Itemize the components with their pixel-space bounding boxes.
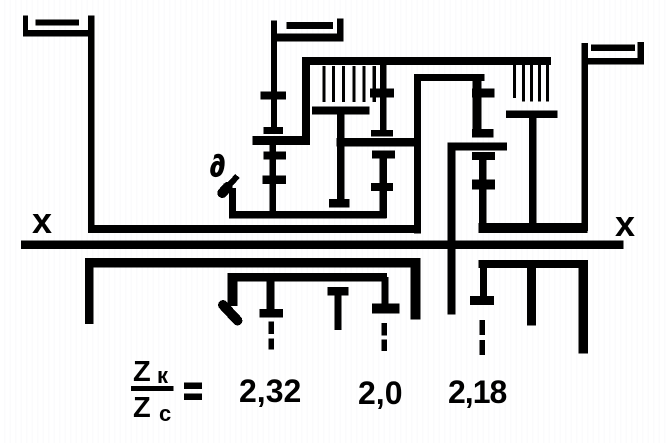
wire: frame vertical V4: [414, 74, 421, 233]
freewheel arrow vertical: [228, 273, 238, 306]
wire: rail A: [230, 211, 387, 219]
bearing support input: inner bar: [287, 22, 334, 29]
wire: left housing vertical V1: [88, 16, 95, 234]
gear tick sun lower: [371, 183, 393, 191]
wire: lower-left right vertical: [411, 258, 421, 320]
shaft: sun stem lower: [379, 154, 387, 218]
bearing support input: horizontal: [271, 34, 343, 42]
wire: central vertical V5: [448, 143, 456, 315]
gear bar lower 2: [372, 304, 400, 314]
brake stem 2: [529, 118, 537, 231]
brake hatching 2: [515, 64, 548, 102]
end bar frame right: [472, 129, 494, 137]
dashed line 3: [479, 320, 485, 355]
wire: inner rail AA: [228, 273, 388, 281]
wire: lower-left left vertical: [85, 258, 94, 324]
T anchor stem: [334, 291, 341, 330]
wire: rail A left bend: [229, 188, 236, 219]
svg-text:Z: Z: [133, 356, 151, 388]
gear stem lower 1: [266, 273, 274, 313]
freewheel arrow head: [223, 305, 238, 321]
bearing support right: cap vertical: [638, 42, 645, 64]
bearing support left: horizontal: [23, 30, 95, 37]
carrier bar K: [336, 138, 417, 146]
equals sign: [184, 383, 202, 390]
gear tick on input shaft: [260, 91, 285, 99]
svg-text:2,32: 2,32: [239, 373, 301, 409]
gear stem lower 2: [382, 277, 389, 310]
wire: horizontal Q: [448, 143, 508, 151]
svg-text:x: x: [615, 203, 635, 244]
bearing support left: cap vertical: [23, 16, 28, 37]
end bar sun lower: [372, 150, 395, 158]
bearing support input: right vertical: [337, 19, 343, 42]
gear tick gear2: [472, 180, 495, 190]
shaft: input shaft lower: [270, 145, 276, 218]
brake band bar 2: [506, 111, 557, 118]
svg-text:∂: ∂: [210, 150, 225, 183]
svg-text:с: с: [159, 401, 171, 426]
axis X-X: [21, 240, 624, 248]
gear tick frame right: [472, 89, 495, 98]
fraction bar: [131, 386, 174, 391]
wire: drum1 left vertical: [302, 57, 310, 145]
wire: lower-right right vertical: [579, 260, 588, 353]
brake stem 1 foot: [329, 199, 349, 207]
svg-text:x: x: [32, 200, 52, 241]
gear bar lower 1: [259, 309, 283, 317]
shaft: sun shaft upper: [380, 61, 387, 136]
shaft: gear2 stem: [479, 156, 487, 231]
end bar gear2: [472, 152, 495, 160]
svg-text:Z: Z: [133, 392, 151, 424]
arrow shaft to input: [226, 176, 238, 189]
end bar on input shaft: [264, 127, 283, 134]
wire: lower-left rail: [85, 258, 421, 268]
svg-text:2,0: 2,0: [358, 375, 402, 411]
wire: rail Y upper right: [479, 223, 588, 233]
wire: frame right vertical: [473, 74, 482, 135]
brake hatching 1: [324, 66, 374, 102]
end bar on sun shaft: [371, 130, 393, 137]
T anchor bar: [328, 287, 349, 295]
svg-text:2,18: 2,18: [448, 374, 506, 410]
gear tick C on input shaft: [262, 176, 286, 184]
gear stem lower right: [480, 260, 487, 300]
brake stem 1: [337, 114, 345, 203]
bearing support left: inner bar: [36, 19, 80, 25]
bearing support right: inner bar: [591, 44, 635, 51]
arrow head: [222, 187, 227, 193]
dashed line 2: [381, 323, 387, 351]
wire: lower-right middle vertical: [527, 260, 536, 326]
clutch bar: [252, 136, 309, 145]
svg-text:к: к: [157, 363, 169, 388]
brake band bar 1: [312, 106, 370, 114]
wire: long top horizontal H1: [302, 57, 551, 65]
wire: right housing vertical V3: [582, 43, 589, 231]
gear bar lower right: [470, 296, 494, 305]
shaft: input shaft upper: [271, 20, 277, 134]
wire: frame top: [414, 74, 484, 81]
dashed line 1: [268, 322, 274, 350]
wire: lower-right rail: [479, 260, 587, 268]
gear tick B on input shaft: [264, 151, 286, 159]
bearing support right: horizontal: [585, 58, 644, 65]
gear tick on sun shaft: [370, 88, 394, 97]
wire: rail B: [88, 225, 421, 233]
